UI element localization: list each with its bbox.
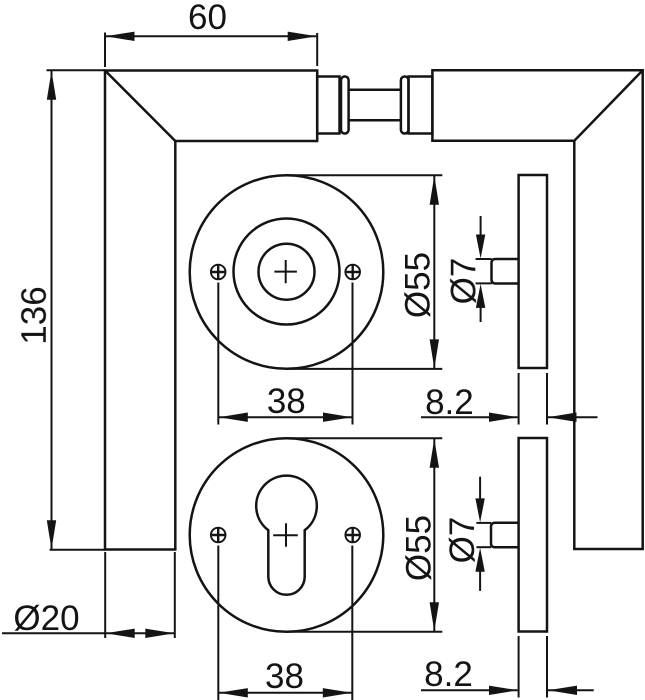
svg-text:Ø55: Ø55 [399,252,438,318]
svg-text:8.2: 8.2 [425,383,474,422]
side view top spindle stub [492,259,519,284]
svg-text:8.2: 8.2 [424,655,473,694]
svg-text:38: 38 [265,657,304,696]
top rosette right screw [345,265,360,280]
bottom rosette center cross [273,523,298,547]
svg-text:Ø7: Ø7 [443,517,482,564]
bottom rosette outer circle [190,438,384,632]
bottom rosette euro keyhole [256,476,317,595]
top rosette middle circle [234,219,340,325]
dimension 38 top [218,283,352,425]
dimension Ø7 top [476,216,492,322]
side view bottom rosette plate [519,438,547,632]
top rosette center cross [274,260,297,283]
top rosette inner circle [259,244,315,300]
svg-text:136: 136 [15,286,54,344]
dimension Ø20 [2,552,175,638]
right handle ring [401,77,409,134]
dimension 8.2 bottom [421,636,594,698]
bottom rosette left screw [211,528,226,543]
left handle ring [341,77,349,134]
dimension Ø55 bottom [287,438,442,632]
dimension 136 [47,70,106,549]
dimension Ø55 top [287,175,443,369]
spindle [349,90,401,121]
svg-text:Ø7: Ø7 [444,258,483,305]
bottom rosette right screw [345,528,360,543]
svg-text:Ø20: Ø20 [13,599,79,638]
dimension 38 bottom [218,546,352,700]
side view bottom spindle stub [491,523,519,547]
svg-text:60: 60 [188,0,227,37]
left lever mitre line [105,71,175,142]
dimension Ø7 bottom [476,477,491,591]
top rosette left screw [211,265,226,280]
left handle collar [317,77,339,134]
left lever handle outline [105,71,317,550]
right lever handle outline [432,70,642,549]
dimension 8.2 top [421,373,598,425]
side view top rosette plate [519,175,547,368]
dimension 60 [105,33,317,68]
right lever mitre line [574,70,642,141]
svg-text:38: 38 [267,382,306,421]
svg-text:Ø55: Ø55 [400,515,439,581]
top rosette outer circle [190,175,384,369]
right handle collar [409,77,433,134]
